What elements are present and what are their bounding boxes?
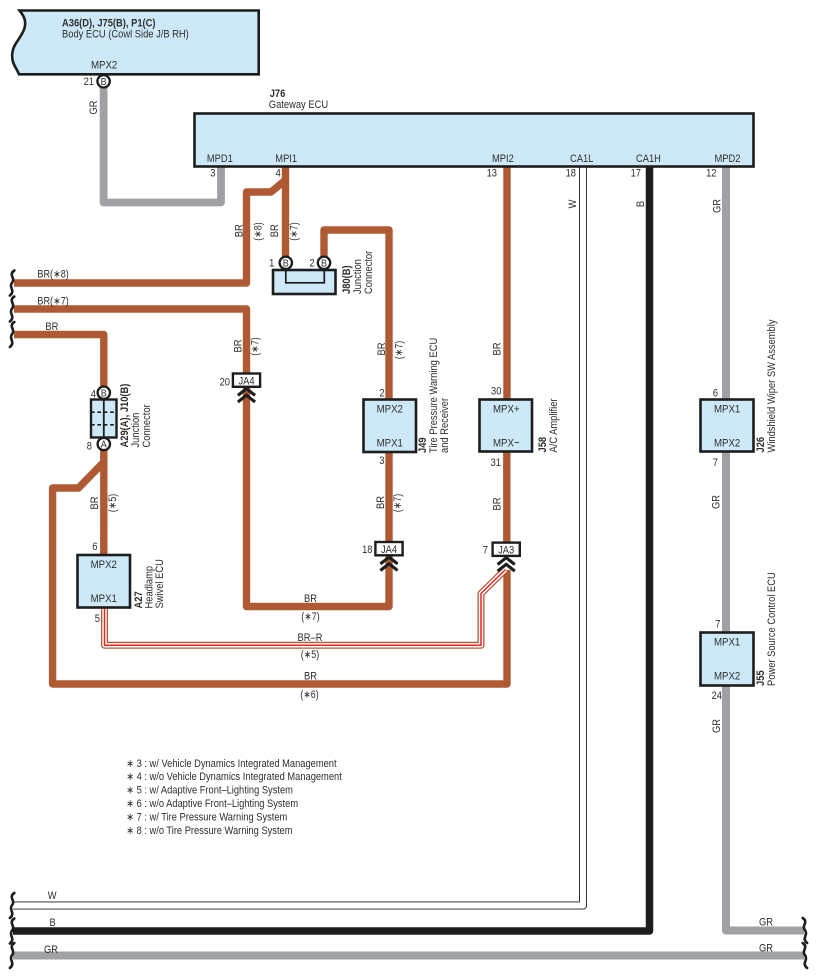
svg-text:B: B [283,258,289,270]
svg-text:B: B [101,387,107,399]
svg-text:MPX1: MPX1 [91,593,117,605]
svg-text:MPI2: MPI2 [492,153,514,165]
svg-text:BR: BR [491,342,503,355]
svg-text:GR: GR [759,917,773,929]
svg-text:13: 13 [487,168,497,180]
svg-text:3: 3 [379,455,384,467]
svg-text:MPD1: MPD1 [207,153,233,165]
svg-text:(∗6): (∗6) [300,689,318,701]
svg-text:MPX2: MPX2 [91,60,117,72]
svg-text:(∗7): (∗7) [392,494,404,512]
svg-text:Connector: Connector [141,404,153,447]
svg-text:∗ 8 : w/o Tire Pressure Warnin: ∗ 8 : w/o Tire Pressure Warning System [126,825,292,837]
svg-text:GR: GR [88,100,100,114]
svg-text:4: 4 [276,168,281,180]
svg-text:MPX2: MPX2 [91,559,117,571]
svg-text:Windshield Wiper SW Assembly: Windshield Wiper SW Assembly [766,319,778,452]
svg-text:Gateway ECU: Gateway ECU [269,99,328,111]
svg-text:8: 8 [87,441,92,453]
svg-text:30: 30 [491,386,501,398]
svg-text:17: 17 [631,168,641,180]
svg-text:31: 31 [491,457,501,469]
svg-text:and Receiver: and Receiver [439,398,451,453]
svg-text:∗ 5 : w/ Adaptive Front–Lighti: ∗ 5 : w/ Adaptive Front–Lighting System [126,785,293,797]
svg-text:BR: BR [376,342,388,355]
svg-text:24: 24 [712,690,722,702]
svg-text:3: 3 [210,168,215,180]
svg-text:JA4: JA4 [381,544,397,556]
svg-text:B: B [50,917,56,929]
svg-text:A: A [101,439,107,451]
svg-text:GR: GR [759,943,773,955]
svg-text:6: 6 [92,541,97,553]
svg-text:BR: BR [269,224,281,237]
svg-text:MPX1: MPX1 [714,403,740,415]
svg-text:B: B [635,201,647,207]
svg-text:7: 7 [483,545,488,557]
svg-text:BR: BR [233,224,245,237]
svg-text:∗ 4 : w/o Vehicle Dynamics Int: ∗ 4 : w/o Vehicle Dynamics Integrated Ma… [126,771,342,783]
svg-text:A/C Amplifier: A/C Amplifier [548,398,560,452]
svg-text:18: 18 [362,544,372,556]
svg-text:BR: BR [304,593,317,605]
svg-text:(∗7): (∗7) [250,337,262,355]
svg-text:12: 12 [706,168,716,180]
svg-text:(∗7): (∗7) [288,222,300,240]
svg-text:BR: BR [233,339,245,352]
svg-text:7: 7 [713,457,718,469]
svg-text:BR(∗7): BR(∗7) [37,295,68,307]
svg-text:1: 1 [269,258,274,270]
svg-text:5: 5 [95,613,100,625]
svg-text:MPX−: MPX− [493,438,520,450]
svg-text:JA4: JA4 [238,375,254,387]
svg-text:(∗5): (∗5) [107,494,119,512]
svg-text:(∗7): (∗7) [393,341,405,359]
svg-text:BR: BR [491,497,503,510]
svg-text:BR(∗8): BR(∗8) [37,269,68,281]
svg-text:J76: J76 [270,88,286,100]
svg-text:Connector: Connector [363,251,375,294]
svg-text:CA1L: CA1L [570,153,593,165]
svg-text:MPX1: MPX1 [377,438,403,450]
svg-text:W: W [48,890,57,902]
svg-text:MPX2: MPX2 [714,671,740,683]
svg-text:BR: BR [45,321,58,333]
svg-text:Body ECU (Cowl Side J/B RH): Body ECU (Cowl Side J/B RH) [62,29,189,41]
svg-text:20: 20 [220,377,230,389]
svg-text:18: 18 [566,168,576,180]
svg-text:2: 2 [379,388,384,400]
svg-text:BR: BR [375,496,387,509]
svg-text:MPX1: MPX1 [714,636,740,648]
svg-text:CA1H: CA1H [636,153,661,165]
svg-text:MPX2: MPX2 [377,403,403,415]
svg-text:BR–R: BR–R [298,632,323,644]
svg-text:GR: GR [44,944,58,956]
svg-text:MPD2: MPD2 [715,153,741,165]
svg-text:Power Source Control ECU: Power Source Control ECU [766,572,778,686]
svg-text:Swivel ECU: Swivel ECU [154,559,166,608]
svg-text:∗ 6 : w/o Adaptive Front–Light: ∗ 6 : w/o Adaptive Front–Lighting System [126,798,298,810]
svg-text:4: 4 [91,389,96,401]
svg-text:JA3: JA3 [498,544,514,556]
svg-text:BR: BR [89,496,101,509]
svg-text:B: B [321,258,327,270]
svg-text:21: 21 [84,76,94,88]
svg-text:W: W [567,199,579,208]
svg-text:GR: GR [712,199,724,213]
svg-text:B: B [101,76,107,88]
svg-text:(∗7): (∗7) [301,611,319,623]
svg-text:BR: BR [304,671,317,683]
svg-text:∗ 7 : w/ Tire Pressure Warning: ∗ 7 : w/ Tire Pressure Warning System [126,811,287,823]
svg-text:6: 6 [713,388,718,400]
svg-text:(∗5): (∗5) [301,649,319,661]
svg-text:GR: GR [711,495,723,509]
svg-text:MPX2: MPX2 [714,438,740,450]
svg-text:∗ 3 : w/ Vehicle Dynamics Inte: ∗ 3 : w/ Vehicle Dynamics Integrated Man… [126,758,336,770]
svg-text:GR: GR [711,719,723,733]
svg-text:MPX+: MPX+ [493,403,520,415]
svg-text:7: 7 [715,619,720,631]
svg-text:MPI1: MPI1 [275,153,297,165]
svg-text:2: 2 [310,258,315,270]
svg-text:(∗8): (∗8) [253,222,265,240]
